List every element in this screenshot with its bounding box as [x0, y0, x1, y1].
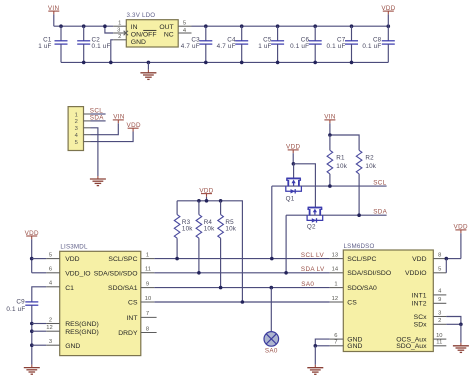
- svg-text:LSM6DSO: LSM6DSO: [344, 243, 375, 250]
- svg-text:12: 12: [46, 325, 52, 331]
- svg-text:3.3V LDO: 3.3V LDO: [127, 12, 156, 19]
- pin 7 INT: [141, 311, 157, 317]
- pin 9 INT2: [433, 297, 446, 303]
- pin 8 VDD: [433, 252, 446, 258]
- junction: [240, 61, 244, 65]
- svg-text:12: 12: [332, 296, 338, 302]
- junction: [276, 61, 280, 65]
- junction: [147, 61, 151, 65]
- svg-text:5: 5: [438, 267, 441, 273]
- wire: [32, 287, 46, 302]
- wire: [315, 345, 330, 347]
- junction: [270, 257, 274, 261]
- svg-text:VDD_IO: VDD_IO: [65, 270, 90, 277]
- pin 11 SDO_Aux: [433, 340, 446, 346]
- wire CS: [154, 301, 329, 303]
- junction: [82, 24, 86, 28]
- svg-text:3: 3: [438, 310, 441, 316]
- svg-text:LIS3MDL: LIS3MDL: [60, 244, 88, 251]
- svg-text:RES(GND): RES(GND): [65, 329, 99, 336]
- pin 12 CS: [330, 296, 344, 302]
- wire: [53, 14, 55, 26]
- junction: [205, 199, 209, 203]
- junction: [197, 271, 201, 275]
- svg-text:ON/OFF: ON/OFF: [131, 32, 157, 39]
- svg-text:SDA: SDA: [90, 114, 104, 121]
- wire SA0: [154, 287, 329, 289]
- svg-text:0.1 uF: 0.1 uF: [290, 43, 309, 50]
- svg-text:1 uF: 1 uF: [258, 43, 271, 50]
- IC U2 LIS3MDL: [60, 244, 141, 356]
- wire: [32, 258, 47, 260]
- svg-text:2: 2: [118, 34, 121, 40]
- junction: [357, 213, 361, 217]
- node VDD: [25, 230, 39, 240]
- pin 1: [84, 113, 91, 115]
- junction: [276, 24, 280, 28]
- junction: [445, 257, 449, 261]
- svg-text:9: 9: [438, 297, 441, 303]
- wire SDA: [91, 120, 106, 122]
- pin 2: [84, 120, 91, 122]
- wire: [91, 128, 98, 176]
- node VDD: [127, 122, 141, 132]
- capacitor C3: [181, 26, 213, 62]
- ground: [307, 365, 323, 375]
- wire SDA_LV: [154, 272, 329, 274]
- svg-text:11: 11: [436, 340, 442, 346]
- svg-text:6: 6: [49, 267, 52, 273]
- svg-text:9: 9: [146, 281, 149, 287]
- node VIN: [48, 5, 60, 15]
- junction: [59, 24, 63, 28]
- svg-text:5: 5: [49, 252, 52, 258]
- wire: [111, 40, 113, 63]
- connector J1: [68, 107, 83, 151]
- wire SCL_LV: [154, 258, 329, 260]
- wire SDA: [286, 214, 387, 216]
- node VDD: [286, 144, 300, 154]
- svg-text:OUT: OUT: [159, 24, 173, 31]
- wire: [445, 259, 447, 273]
- svg-text:3: 3: [117, 27, 120, 33]
- svg-text:2: 2: [49, 317, 52, 323]
- junction: [314, 344, 318, 348]
- svg-text:R2: R2: [365, 154, 374, 161]
- svg-text:VDDIO: VDDIO: [405, 270, 427, 277]
- svg-text:SDA LV: SDA LV: [301, 266, 325, 273]
- junction: [313, 24, 317, 28]
- pin 2 RES: [46, 317, 60, 323]
- junction: [313, 61, 317, 65]
- wire SDA_LV drop: [285, 215, 287, 273]
- junction: [241, 300, 245, 304]
- junction: [350, 24, 354, 28]
- svg-text:3: 3: [75, 126, 78, 132]
- svg-text:IN: IN: [131, 24, 138, 31]
- wire: [91, 132, 134, 142]
- svg-text:10k: 10k: [225, 226, 236, 233]
- IC U3 LSM6DSO: [343, 243, 433, 352]
- svg-text:10: 10: [436, 333, 442, 339]
- wire: [292, 153, 294, 164]
- svg-text:INT1: INT1: [412, 292, 427, 299]
- wire ground rail: [61, 61, 388, 63]
- wire: [314, 346, 316, 365]
- pin 2 SDx: [433, 318, 446, 324]
- node VIN: [324, 114, 336, 124]
- svg-text:1 uF: 1 uF: [38, 43, 51, 50]
- svg-text:VDD: VDD: [65, 256, 79, 263]
- wire: [329, 123, 331, 135]
- node VIN: [113, 114, 125, 124]
- svg-text:2: 2: [75, 119, 78, 125]
- svg-text:13: 13: [332, 252, 338, 258]
- pin 4 INT1: [433, 289, 446, 295]
- svg-text:5: 5: [183, 20, 186, 26]
- capacitor C2: [77, 26, 110, 62]
- wire: [315, 339, 330, 346]
- pin 12 RES: [46, 325, 60, 331]
- svg-text:GND: GND: [131, 39, 146, 46]
- wire: [31, 239, 33, 272]
- junction: [82, 61, 86, 65]
- junction: [204, 24, 208, 28]
- wire: [32, 330, 46, 332]
- capacitor C7: [326, 26, 358, 62]
- resistor R5: [218, 201, 237, 288]
- wire: [192, 25, 389, 27]
- svg-text:NC: NC: [164, 32, 174, 39]
- svg-text:SCL/SPC: SCL/SPC: [108, 256, 137, 263]
- ground: [90, 176, 106, 186]
- capacitor C8: [362, 26, 394, 62]
- svg-text:6: 6: [334, 333, 337, 339]
- wire: [293, 164, 315, 208]
- junction: [197, 199, 201, 203]
- svg-text:0.1 uF: 0.1 uF: [362, 43, 381, 50]
- junction: [284, 271, 288, 275]
- junction: [292, 162, 296, 166]
- svg-text:10k: 10k: [336, 163, 347, 170]
- svg-text:0.1 uF: 0.1 uF: [326, 43, 345, 50]
- svg-text:DRDY: DRDY: [118, 330, 138, 337]
- resistor R2: [356, 150, 377, 215]
- junction: [328, 133, 332, 137]
- junction: [387, 24, 391, 28]
- svg-text:VDD: VDD: [412, 256, 426, 263]
- resistor R4: [196, 201, 215, 273]
- svg-text:INT2: INT2: [412, 301, 427, 308]
- svg-text:C1: C1: [65, 285, 74, 292]
- svg-text:CS: CS: [347, 299, 357, 306]
- svg-text:GND: GND: [65, 343, 80, 350]
- junction: [328, 184, 332, 188]
- svg-text:1: 1: [118, 21, 121, 27]
- svg-text:Q1: Q1: [286, 196, 295, 203]
- ground: [24, 365, 40, 375]
- wire: [105, 26, 113, 33]
- junction: [30, 322, 34, 326]
- wire: [32, 323, 46, 325]
- pin 6 GND: [330, 333, 344, 339]
- svg-text:SA0: SA0: [265, 348, 278, 355]
- junction: [175, 257, 179, 261]
- capacitor C5: [258, 26, 284, 62]
- junction: [219, 199, 223, 203]
- pin 8 DRDY: [141, 326, 157, 332]
- junction: [350, 61, 354, 65]
- wire SCL: [272, 185, 387, 187]
- svg-text:SDO/SA1: SDO/SA1: [108, 285, 138, 292]
- wire: [54, 25, 113, 27]
- pin 4 C1: [46, 281, 60, 287]
- ground: [140, 70, 156, 80]
- svg-text:1: 1: [334, 281, 337, 287]
- pin 2 GND: [113, 34, 126, 40]
- wire: [460, 233, 462, 258]
- pin 5 OUT: [178, 20, 191, 26]
- transistor Q1: [286, 178, 302, 202]
- node VDD: [381, 5, 395, 15]
- svg-text:Q2: Q2: [307, 224, 316, 231]
- junction: [109, 61, 113, 65]
- svg-text:5: 5: [75, 140, 78, 146]
- junction: [30, 329, 34, 333]
- wire: [387, 14, 389, 26]
- svg-text:1: 1: [146, 252, 149, 258]
- svg-text:4.7 uF: 4.7 uF: [181, 43, 200, 50]
- wire SCL: [91, 113, 106, 115]
- junction: [204, 61, 208, 65]
- capacitor C6: [290, 26, 322, 62]
- wire: [147, 62, 149, 69]
- svg-text:GND: GND: [347, 343, 362, 350]
- resistor R3: [174, 201, 193, 259]
- capacitor C4: [217, 26, 249, 62]
- wire SCL_LV drop: [271, 186, 273, 259]
- svg-text:R1: R1: [336, 154, 345, 161]
- svg-text:SDO/SA0: SDO/SA0: [347, 285, 377, 292]
- pin 3 GND: [46, 339, 60, 345]
- wire: [270, 288, 272, 332]
- svg-text:14: 14: [332, 267, 339, 273]
- svg-text:INT: INT: [127, 315, 138, 322]
- svg-text:10k: 10k: [365, 163, 376, 170]
- svg-text:8: 8: [146, 326, 149, 332]
- pin 9 SDO/SA1: [141, 281, 155, 287]
- svg-text:10: 10: [145, 296, 151, 302]
- pin 3 ON/OFF: [113, 27, 128, 35]
- pin 4: [84, 134, 91, 136]
- junction: [270, 286, 274, 290]
- pin 5: [84, 141, 91, 143]
- svg-text:10k: 10k: [182, 226, 193, 233]
- junction: [459, 323, 463, 327]
- pin 4 NC: [178, 28, 191, 34]
- pin 6 VDD_IO: [46, 267, 60, 273]
- transistor Q2: [307, 208, 323, 231]
- ground: [453, 343, 469, 353]
- pin 3: [84, 127, 91, 129]
- pin 14 SDA/SDI/SDO: [330, 267, 344, 273]
- wire: [32, 344, 46, 346]
- regulator U1 3.3V LDO: [126, 12, 178, 47]
- svg-text:SCL/SPC: SCL/SPC: [347, 256, 376, 263]
- junction: [30, 343, 34, 347]
- svg-text:7: 7: [334, 340, 337, 346]
- wire: [32, 272, 47, 274]
- svg-text:3: 3: [49, 339, 52, 345]
- svg-text:CS: CS: [128, 300, 138, 307]
- svg-text:4.7 uF: 4.7 uF: [217, 43, 236, 50]
- svg-text:1: 1: [75, 112, 78, 118]
- svg-text:0.1 uF: 0.1 uF: [92, 43, 111, 50]
- wire pullup rail: [177, 201, 242, 302]
- svg-text:2: 2: [438, 318, 441, 324]
- junction: [219, 286, 223, 290]
- node VDD: [199, 187, 213, 197]
- svg-text:SDO_Aux: SDO_Aux: [396, 343, 427, 350]
- wire: [446, 258, 461, 260]
- svg-text:SCx: SCx: [414, 314, 427, 321]
- wire: [91, 123, 119, 135]
- resistor R1: [327, 135, 348, 186]
- wire: [293, 164, 295, 178]
- pin 1 IN: [113, 21, 126, 27]
- pin 10 OCS_Aux: [433, 333, 446, 339]
- svg-text:SDA: SDA: [373, 209, 387, 216]
- svg-text:11: 11: [145, 267, 151, 273]
- wire: [446, 317, 461, 325]
- pin 11 SDA: [141, 267, 155, 273]
- svg-text:SCL: SCL: [373, 180, 386, 187]
- pin 3 SCx: [433, 310, 446, 316]
- wire: [330, 135, 359, 150]
- svg-text:10k: 10k: [204, 226, 215, 233]
- capacitor C1: [38, 26, 67, 62]
- pin 5 VDDIO: [433, 267, 446, 273]
- capacitor C9: [6, 298, 38, 364]
- pin 1 SDO/SA0: [330, 281, 344, 287]
- node VDD: [454, 224, 468, 234]
- junction: [30, 257, 34, 261]
- pin 13 SCL/SPC: [330, 252, 344, 258]
- svg-text:RES(GND): RES(GND): [65, 321, 99, 328]
- junction: [103, 24, 107, 28]
- svg-text:SA0: SA0: [301, 281, 314, 288]
- wire: [206, 197, 208, 201]
- wire: [446, 323, 461, 325]
- svg-text:C9: C9: [16, 298, 25, 305]
- svg-text:SCL LV: SCL LV: [301, 252, 325, 259]
- svg-text:0.1 uF: 0.1 uF: [6, 306, 25, 313]
- junction: [240, 24, 244, 28]
- net symbol SA0: [264, 332, 279, 355]
- svg-text:SDx: SDx: [414, 322, 427, 329]
- svg-text:SDA/SDI/SDO: SDA/SDI/SDO: [347, 270, 391, 277]
- svg-text:8: 8: [438, 252, 441, 258]
- pin 10 CS: [141, 296, 155, 302]
- svg-text:7: 7: [146, 311, 149, 317]
- pin 5 VDD: [46, 252, 60, 258]
- svg-text:SDA/SDI/SDO: SDA/SDI/SDO: [94, 270, 138, 277]
- pin 7 GND: [330, 340, 344, 346]
- wire: [460, 324, 462, 343]
- pin 1 SCL/SPC: [141, 252, 155, 258]
